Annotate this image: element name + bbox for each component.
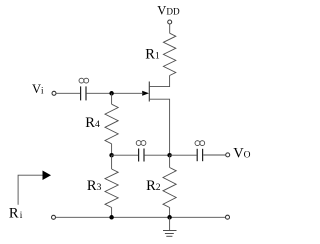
terminal VDD [168, 20, 172, 24]
resistor R1 [163, 33, 175, 75]
wire node B to R3 [111, 155, 113, 169]
wire node B to C2 [112, 154, 139, 156]
node B junction [109, 153, 114, 158]
wire R3 to bottom rail [111, 208, 113, 218]
wire source node to C3 [170, 154, 197, 156]
wire junction to R4 [111, 93, 113, 104]
capacitor C3 [197, 149, 202, 161]
node gate junction [109, 91, 114, 96]
terminal bottom right [226, 215, 230, 219]
wire VDD to R1 [169, 24, 171, 33]
transistor Q1 gate arrow [142, 91, 149, 96]
capacitor C2 value infinity [136, 141, 146, 146]
wire R4 to node B [111, 144, 113, 155]
node bottom left junction [109, 215, 114, 220]
ground [163, 231, 177, 237]
wire Ri pointer [18, 175, 43, 205]
resistor R3 [105, 169, 118, 208]
wire source lead [150, 99, 170, 155]
arrow Ri pointer [43, 171, 52, 181]
wire bottom rail [56, 216, 226, 218]
node source junction [167, 153, 172, 158]
wire R1 to drain [150, 76, 170, 87]
wire R2 to bottom rail [169, 208, 171, 218]
capacitor C2 [139, 149, 144, 162]
capacitor C1 value infinity [79, 78, 89, 83]
wire C3 to Vo [203, 154, 225, 156]
wire Vi to C1 [56, 92, 80, 94]
wire to ground [169, 217, 171, 230]
capacitor C1 [81, 86, 86, 100]
wire C2 to source node [145, 154, 170, 156]
wire C1 to gate [87, 92, 144, 94]
terminal bottom left [52, 215, 56, 219]
node bottom right junction [167, 215, 172, 220]
resistor R2 [163, 168, 176, 208]
svg-text:VDD: VDD [157, 4, 180, 18]
capacitor C3 value infinity [195, 141, 205, 146]
transistor Q1 channel bar [148, 82, 150, 102]
terminal Vi [52, 91, 56, 95]
terminal Vo [226, 153, 230, 157]
resistor R4 [105, 104, 118, 144]
wire source node to R2 [169, 155, 171, 167]
